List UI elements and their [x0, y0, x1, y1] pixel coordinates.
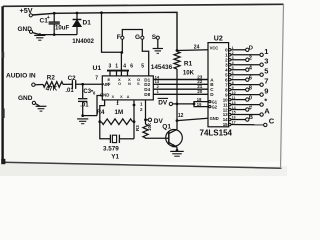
svg-text:3.579: 3.579	[103, 146, 119, 153]
svg-text:10K: 10K	[147, 122, 152, 131]
svg-text:3: 3	[264, 57, 268, 66]
svg-text:G: G	[135, 34, 140, 41]
svg-text:X: X	[112, 94, 115, 99]
svg-text:145436: 145436	[151, 64, 173, 71]
svg-text:10K: 10K	[183, 70, 195, 77]
svg-text:U2: U2	[214, 36, 223, 43]
svg-text:R4: R4	[97, 109, 105, 116]
svg-text:1: 1	[115, 64, 118, 70]
svg-text:*: *	[264, 97, 267, 106]
svg-text:C3: C3	[83, 89, 91, 95]
svg-text:G2: G2	[212, 105, 218, 110]
svg-text:X: X	[120, 94, 123, 99]
svg-text:C2: C2	[68, 75, 77, 82]
svg-text:S: S	[137, 81, 140, 86]
svg-text:0: 0	[249, 95, 252, 101]
svg-text:D: D	[249, 46, 253, 52]
svg-text:C: C	[269, 117, 275, 126]
svg-text:1M: 1M	[115, 109, 124, 116]
svg-text:N: N	[128, 81, 131, 86]
svg-text:1: 1	[264, 47, 268, 56]
svg-text:7: 7	[264, 77, 268, 86]
svg-text:2: 2	[249, 55, 252, 61]
svg-text:5: 5	[141, 64, 144, 70]
svg-text:20: 20	[197, 89, 203, 94]
svg-text:Y1: Y1	[111, 154, 119, 161]
svg-text:.01: .01	[65, 88, 74, 94]
svg-text:R2: R2	[47, 74, 56, 81]
svg-text:DV: DV	[154, 118, 164, 125]
svg-text:3: 3	[109, 64, 112, 70]
svg-text:Q1: Q1	[162, 124, 171, 131]
svg-text:R1: R1	[184, 61, 193, 68]
svg-text:7: 7	[95, 76, 98, 82]
svg-text:47K: 47K	[46, 86, 58, 93]
svg-text:DV: DV	[158, 100, 168, 107]
svg-text:A: A	[127, 94, 130, 99]
svg-text:D1: D1	[83, 20, 92, 27]
svg-text:U1: U1	[93, 65, 102, 72]
svg-text:D8: D8	[144, 92, 150, 97]
svg-text:AUDIO IN: AUDIO IN	[6, 73, 36, 80]
svg-text:VCC: VCC	[210, 45, 219, 50]
svg-text:AIN: AIN	[102, 82, 109, 87]
svg-text:1N4002: 1N4002	[72, 38, 94, 45]
svg-text:GND: GND	[18, 26, 33, 33]
svg-text:O: O	[118, 81, 121, 86]
svg-text:19: 19	[197, 102, 202, 107]
svg-text:9: 9	[264, 87, 268, 96]
svg-text:GND: GND	[18, 95, 33, 102]
svg-text:.01: .01	[80, 103, 89, 109]
svg-text:5: 5	[264, 67, 268, 76]
svg-text:6: 6	[130, 64, 133, 70]
svg-text:B: B	[249, 115, 253, 121]
svg-text:10uF: 10uF	[55, 24, 70, 31]
svg-text:12: 12	[178, 113, 184, 119]
svg-text:24: 24	[194, 44, 200, 50]
svg-text:+: +	[47, 15, 50, 21]
svg-text:R3: R3	[135, 125, 140, 131]
svg-text:15: 15	[223, 122, 228, 127]
svg-text:4: 4	[123, 64, 126, 70]
svg-text:A: A	[264, 107, 270, 116]
svg-text:GND: GND	[210, 116, 219, 121]
svg-text:74LS154: 74LS154	[200, 128, 233, 137]
